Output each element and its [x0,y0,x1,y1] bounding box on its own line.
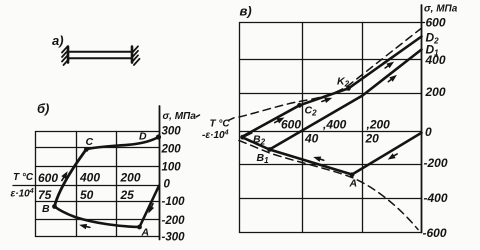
right wall [131,47,134,63]
tick labels v axis [423,16,448,241]
dash just outside border [229,118,235,121]
svg-text:0: 0 [164,179,171,191]
arrow on 0-A segment pointing to A [146,202,156,214]
sigma axis of chart v [421,5,423,233]
grid v horizontal -600 bottom [240,232,422,234]
left wall hatching [62,46,68,52]
svg-text:D: D [139,131,147,143]
grid v vertical x=362.4 [362,23,364,233]
svg-text:0: 0 [425,125,432,139]
svg-text:-200: -200 [162,215,186,227]
line B1 to D1 [270,50,422,150]
svg-text:20: 20 [365,132,380,146]
curve b: A to B bottom curve [55,207,140,228]
svg-text:,200: ,200 [366,118,391,132]
point A dot (v) [350,172,355,177]
grid v vertical left border [239,23,241,233]
svg-text:200: 200 [425,85,446,99]
grid b horizontal 200 [36,147,160,149]
svg-text:300: 300 [162,126,182,138]
svg-text:-200: -200 [424,156,448,170]
arrow on 0-A line (v) [386,152,398,162]
svg-text:600: 600 [426,16,446,30]
svg-text:-400: -400 [424,191,448,205]
svg-text:600: 600 [38,171,58,185]
point D dot [156,134,161,139]
line A to B1 (v) [270,150,353,175]
grid b horizontal 300 top [36,131,160,133]
svg-text:40: 40 [304,132,319,146]
grid v horizontal 400 [240,59,422,61]
line B1 to B2 [243,137,270,149]
svg-text:C: C [86,136,94,148]
svg-text:C2: C2 [305,105,318,118]
svg-text:,400: ,400 [322,118,347,132]
svg-text:75: 75 [38,188,52,202]
point B2 dot [240,135,245,140]
grid b horizontal 100 [36,166,160,168]
bar bottom line [68,57,132,59]
arrow on A-B curve pointing to B [78,222,90,230]
svg-text:200: 200 [161,143,182,155]
right wall hatching [132,46,138,52]
table values b: T row [38,171,141,203]
point C2 dot [297,103,302,108]
point K2 dot [346,86,351,91]
dashed lower curve under A-B1 through A to -600 [239,141,418,230]
svg-text:T °C: T °C [13,172,34,183]
svg-text:б): б) [37,101,49,116]
svg-text:A: A [141,227,150,239]
svg-text:σ, МПа: σ, МПа [163,111,197,122]
svg-text:B2: B2 [253,134,266,147]
grid v horizontal 600 top [240,22,425,24]
arrow on B-C line pointing to C [59,170,70,182]
svg-text:-600: -600 [423,226,447,240]
arrow on A-B1 line (v) [312,154,324,163]
in-chart x labels v: T row [281,118,390,146]
grid v horizontal 0 [240,131,422,133]
svg-text:ε·104: ε·104 [11,188,34,200]
point C dot [84,147,89,152]
svg-text:50: 50 [80,188,94,202]
svg-text:σ, МПа: σ, МПа [424,4,458,15]
point B dot [52,204,57,209]
grid b vertical left border [35,132,37,237]
svg-text:в): в) [240,4,252,19]
tick labels b axis [161,126,186,244]
curve b: segment 0 to A [140,186,160,227]
svg-text:400: 400 [79,171,100,185]
grid v vertical x=302 [302,23,304,233]
line B2-C2-K2-D2 [243,37,422,137]
grid b horizontal -200 [36,219,160,221]
grid v horizontal 200 [240,93,422,95]
svg-text:-100: -100 [162,196,186,208]
svg-text:25: 25 [120,188,135,202]
svg-text:200: 200 [120,171,141,185]
arrow on K2-D2 line (v) [383,59,395,70]
grid b horizontal -100 [36,201,160,203]
point A dot [137,225,142,230]
dashed upper curve through C2 K2 to near 600 [239,29,421,118]
grid b vertical x=76 [76,132,78,237]
grid b horizontal 0 (extends left under T label) [13,185,160,187]
svg-text:B: B [42,203,50,215]
svg-text:а): а) [52,33,64,48]
curve b: B to C steep line [55,149,87,206]
left wall [67,47,70,63]
grid b horizontal -300 bottom [36,236,160,238]
grid b vertical x=116.5 [116,132,118,237]
arrow on B1-D1 line (v) [387,73,399,84]
chart b grid [13,132,160,237]
grid v horizontal -400 [240,198,422,200]
bar fixed between two walls [62,46,140,65]
point B1 dot [267,147,272,152]
arrow on C2-K2 line (v) [321,95,333,104]
svg-text:-300: -300 [162,232,186,244]
svg-text:A: A [349,178,358,190]
chart v grid [240,23,425,233]
svg-text:600: 600 [281,118,301,132]
curve b: C to D top curve [86,137,158,149]
grid v horizontal -200 [240,164,422,166]
svg-text:B1: B1 [257,152,270,165]
stray dash left of border [196,115,200,117]
svg-text:400: 400 [425,53,446,67]
sigma axis of chart b [159,106,161,240]
svg-text:-ε·104: -ε·104 [202,130,229,142]
arrow on B2-C2 line (v) [273,115,285,125]
open arrowhead at B2 [242,133,251,142]
svg-text:100: 100 [162,161,182,173]
svg-text:T °C: T °C [210,119,231,130]
bar top line [68,51,132,53]
line 0 to A (v) [352,133,422,175]
